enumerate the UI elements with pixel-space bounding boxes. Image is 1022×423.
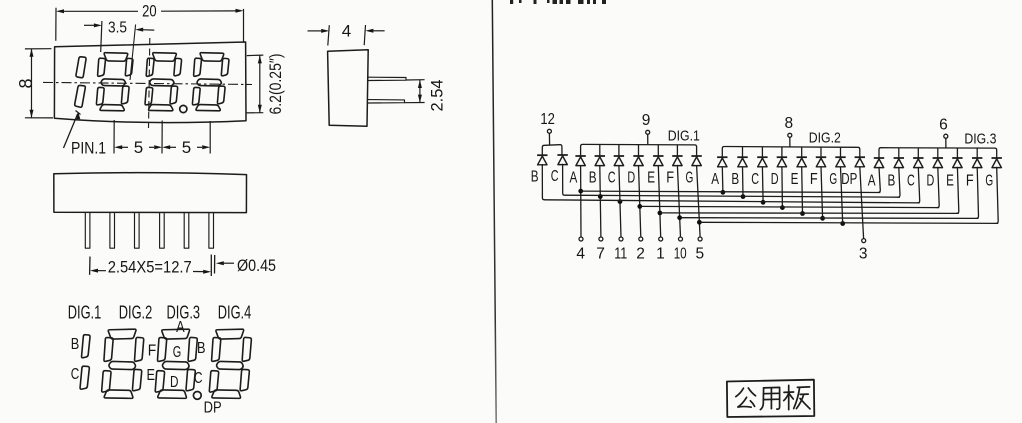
front digit 2 segment E (96, 87, 104, 104)
wire DIG.3 D to bus (937, 167, 939, 207)
svg-text:B: B (531, 168, 539, 185)
dimension 5 extension digit2 (113, 120, 115, 154)
diode DIG.3 segment G (992, 157, 1002, 159)
diode DIG.1 segment A (575, 155, 585, 157)
svg-text:C: C (608, 169, 616, 186)
terminal pin 10 (679, 237, 683, 241)
wire DIG.2 rail to diode G (840, 147, 842, 157)
wire DIG.3 rail to diode B (898, 148, 900, 158)
front digit 2 segment F (98, 58, 106, 76)
diagram digit 4 segment A (216, 329, 244, 339)
pin 6 stub wire (945, 138, 947, 147)
svg-text:1: 1 (656, 245, 665, 262)
front digit 2 segment G (101, 79, 125, 86)
diagram digit 4 segment D (212, 390, 241, 398)
svg-text:B: B (888, 173, 896, 190)
svg-text:7: 7 (596, 245, 605, 262)
dimension 12.7 left extension (89, 257, 91, 275)
bottom view pin 3 (135, 213, 140, 248)
pin 12 terminal (547, 129, 551, 133)
svg-text:6: 6 (939, 116, 948, 133)
stamp box outline (727, 380, 814, 417)
wire DIG.2 rail to diode C (761, 147, 763, 157)
diagram digit 4 segment G (217, 361, 244, 369)
diode DIG.2 segment C (757, 156, 767, 158)
dimension 4 left extension (328, 25, 330, 45)
dimension 4 right extension (364, 25, 365, 45)
pin 9 stub wire (647, 134, 649, 144)
junction DIG.1 D (637, 204, 642, 209)
wire DIG.1 rail to diode B (599, 145, 601, 156)
front digit 3 segment F (146, 58, 154, 76)
svg-text:F: F (666, 169, 674, 186)
wire DIG.3 A to bus (878, 167, 880, 192)
diode DIG.2 segment E (797, 156, 807, 158)
diode DIG.2 segment DP (855, 156, 865, 158)
svg-text:A: A (570, 169, 578, 186)
front digit 3 segment A (153, 53, 177, 62)
front digit 4 segment F (194, 58, 202, 76)
svg-text:3: 3 (859, 246, 868, 263)
svg-text:C: C (751, 171, 759, 188)
diagram digit 4 segment C (240, 369, 249, 390)
diagram digit 3 segment E (155, 371, 164, 392)
front digit 4 segment D (196, 105, 220, 111)
wire DIG.3 C to bus (918, 167, 920, 203)
wire DIG.1 C to terminal (619, 165, 621, 237)
front digit 4 segment C (217, 86, 225, 104)
wire DIG.3 F to bus (976, 167, 978, 218)
junction DIG.2 F (820, 216, 825, 221)
svg-text:F: F (966, 173, 974, 190)
character GONG (736, 388, 744, 396)
wire DIG.1 G to terminal (697, 165, 701, 237)
diode DIG.3 segment C (913, 157, 923, 159)
svg-text:B: B (731, 171, 739, 188)
svg-text:10: 10 (674, 245, 687, 262)
diagram digit 4 segment B (242, 337, 251, 361)
dimension 12.7 line right arrow (193, 271, 204, 273)
junction DIG.1 C (618, 199, 623, 204)
diagram digit 3 segment F (158, 338, 167, 362)
diode DIG.3 segment D (933, 157, 943, 159)
diode DIG.1 segment E (653, 155, 663, 157)
dimension 5 left label (114, 145, 122, 149)
bus C (544, 200, 919, 203)
wire DIG.2 B to bus (742, 167, 745, 197)
diagram digit 3 segment G (163, 361, 190, 369)
terminal pin 2 (639, 237, 643, 241)
svg-text:G: G (829, 171, 837, 188)
bottom view pin 2 (110, 213, 115, 248)
wire DIG.1 rail to diode E (657, 145, 659, 156)
group1 common rail (542, 145, 562, 156)
diagram digit 3 segment D (158, 390, 187, 398)
wire DIG.1 rail to diode F (676, 145, 678, 156)
svg-text:9: 9 (642, 112, 651, 129)
wire DIG.1 A to terminal (580, 165, 582, 237)
side view pin 1 (368, 77, 406, 80)
diode DIG.1 segment F (672, 155, 682, 157)
front digit 1 segment C (75, 85, 86, 107)
front digit 3 segment E (145, 87, 153, 104)
diode DIG.1 segment G (691, 155, 701, 157)
wire DIG.2 G to bus (841, 167, 843, 224)
diode G1-B (537, 154, 547, 156)
wire DIG.2 D to bus (781, 167, 784, 208)
svg-text:8: 8 (784, 115, 793, 132)
svg-text:E: E (946, 173, 954, 190)
diagram digit 3 segment B (188, 337, 197, 361)
bus G (700, 222, 998, 223)
front digit 4 segment E (192, 87, 200, 104)
diode DIG.2 segment D (777, 156, 787, 158)
svg-text:5: 5 (134, 138, 143, 157)
svg-text:B: B (197, 340, 206, 357)
diagram digit 2 segment F (104, 338, 113, 362)
front digit 2 segment B (125, 58, 133, 75)
diode DIG.1 segment C (614, 155, 624, 157)
wire DIG.2 rail to diode F (820, 147, 822, 157)
diagram digit 3 segment A (162, 329, 190, 339)
svg-text:E: E (146, 367, 155, 384)
pin 8 terminal (788, 133, 792, 137)
diode DIG.3 segment F (972, 157, 982, 159)
wire DIG.2 F to bus (821, 167, 823, 219)
svg-text:5: 5 (182, 138, 191, 157)
wire DIG.1 rail to diode C (618, 145, 620, 156)
dimension 3.5 left extension (101, 21, 102, 52)
diagram digit 3 segment C (186, 369, 195, 390)
svg-text:D: D (170, 374, 179, 391)
svg-text:DIG.2: DIG.2 (809, 131, 841, 147)
svg-text:PIN.1: PIN.1 (71, 139, 106, 157)
svg-text:DIG.4: DIG.4 (218, 303, 252, 323)
wire DIG.2 rail to diode B (742, 147, 744, 157)
wire DIG.1 B to terminal (600, 165, 601, 237)
svg-text:DIG.3: DIG.3 (964, 132, 996, 148)
wire G1-C to B bus (563, 164, 565, 195)
character BAN (784, 391, 794, 393)
junction DIG.2 B (741, 194, 746, 199)
svg-text:8: 8 (16, 78, 36, 88)
svg-text:A: A (711, 171, 719, 188)
dimension 12.7 line left arrow (90, 269, 98, 273)
wire DIG.3 G to bus (996, 167, 998, 223)
dimension 3.5 right extension (130, 25, 136, 81)
wire DIG.2 A to bus (721, 167, 724, 193)
diagram digit 4 segment F (212, 338, 221, 362)
svg-text:2.54: 2.54 (428, 80, 446, 112)
diode DIG.3 segment E (952, 157, 962, 159)
bottom view package outline (54, 173, 247, 213)
svg-text:D: D (627, 169, 635, 186)
junction DIG.2 A (721, 190, 726, 195)
digit 3 vertical centerline (149, 38, 150, 128)
junction DIG.1 E (657, 211, 662, 216)
svg-text:C: C (907, 173, 915, 190)
dimension 2.54 line (419, 80, 421, 103)
side view pin 2 (368, 100, 405, 103)
DIG.3 common rail (879, 148, 997, 159)
svg-text:20: 20 (142, 1, 157, 20)
svg-text:2.54X5=12.7: 2.54X5=12.7 (108, 259, 192, 277)
wire DIG.2 C to bus (761, 167, 764, 203)
front decimal point (180, 105, 187, 112)
diagram digit 2 segment A (108, 329, 136, 339)
junction DIG.2 E (800, 211, 805, 216)
svg-text:5: 5 (695, 245, 704, 262)
front digit 4 segment G (197, 79, 221, 86)
junction DIG.2 D (780, 205, 785, 210)
svg-text:C: C (71, 366, 80, 383)
PIN.1 leader (64, 114, 78, 149)
dimension 5 extension digit4 (209, 121, 211, 154)
svg-text:B: B (71, 336, 80, 353)
wire DIG.2 E to bus (801, 167, 804, 214)
wire DIG.3 rail to diode F (976, 148, 978, 158)
diagram decimal point (193, 392, 201, 400)
pin 6 terminal (944, 134, 948, 138)
svg-text:DIG.2: DIG.2 (119, 303, 153, 323)
terminal pin 4 (579, 237, 583, 241)
diode G1-C (557, 154, 567, 156)
svg-text:G: G (686, 169, 694, 186)
front digit 3 segment G (150, 79, 174, 86)
svg-text:DIG.1: DIG.1 (668, 128, 700, 144)
diagram digit 2 segment E (102, 371, 111, 392)
junction DIG.1 F (677, 215, 682, 220)
horizontal centerline (43, 82, 252, 84)
junction DIG.2 G (840, 221, 845, 226)
dimension 6.2 line (259, 55, 261, 112)
wire DIG.1 F to terminal (677, 165, 680, 237)
svg-text:3.5: 3.5 (108, 20, 127, 37)
terminal pin 7 (599, 237, 603, 241)
diagram digit 2 segment G (109, 361, 136, 369)
terminal pin 1 (659, 237, 663, 241)
diode DIG.2 segment A (717, 156, 727, 158)
bus F (681, 217, 979, 220)
pin 9 terminal (646, 130, 650, 134)
svg-text:G: G (985, 173, 993, 190)
terminal pin 5 (698, 237, 702, 241)
svg-text:12: 12 (540, 111, 555, 128)
wire DIG.2 rail to diode E (801, 147, 803, 157)
front digit 3 segment C (170, 86, 178, 104)
svg-text:D: D (771, 171, 779, 188)
front digit 2 segment C (121, 86, 129, 104)
svg-text:DP: DP (204, 399, 222, 416)
front digit 2 segment A (104, 53, 128, 62)
wire DIG.3 rail to diode D (937, 148, 939, 158)
bus A (581, 191, 881, 192)
terminal pin 11 (619, 237, 623, 241)
front digit 3 segment D (149, 105, 173, 111)
dimension 4 line and arrows (308, 30, 323, 32)
dimension 12.7 right extension (210, 255, 212, 277)
front digit 4 segment B (221, 58, 229, 75)
svg-text:Ø0.45: Ø0.45 (237, 256, 276, 275)
svg-text:11: 11 (614, 245, 627, 262)
pin 8 stub wire (789, 137, 791, 146)
svg-text:E: E (791, 171, 799, 188)
dimension 3.5 right arrow (135, 28, 143, 32)
wire DIG.2 DP to pin 3 (860, 167, 864, 239)
dimension diameter 0.45 arrow (216, 261, 224, 265)
junction DIG.1 B (598, 194, 603, 199)
dimension 6.2 extension bottom (246, 112, 263, 114)
diagram digit 4 segment E (209, 371, 218, 392)
bottom view pin 6 (209, 213, 214, 248)
dimension 2.54 extension bottom (405, 102, 425, 104)
front digit 1 segment B (76, 57, 86, 78)
front view package outline (54, 42, 246, 123)
dimension 20 line (64, 10, 138, 12)
svg-text:DP: DP (841, 171, 857, 188)
dimension 3.5 left arrow (84, 24, 95, 26)
diagram digit 2 segment B (135, 337, 144, 361)
bus D (641, 206, 939, 207)
bus B (565, 195, 900, 197)
vertical divider line (0, 0, 1, 1)
dimension 5 right label (162, 145, 170, 149)
side view package outline (328, 50, 369, 126)
DIG.1 common rail (581, 144, 697, 156)
diagram digit 2 segment D (104, 390, 133, 398)
DIG.2 common rail (722, 147, 860, 158)
junction DIG.1 A (578, 189, 583, 194)
svg-text:4: 4 (576, 245, 585, 262)
dimension 8 extension top (25, 48, 52, 50)
wire DIG.3 B to bus (898, 167, 900, 197)
svg-text:G: G (173, 344, 182, 361)
dimension 6.2 extension top (247, 54, 263, 57)
dimension 8 extension bottom (25, 117, 53, 119)
svg-text:A: A (176, 319, 185, 336)
diagram digit 2 segment C (132, 369, 141, 390)
svg-text:DIG.1: DIG.1 (68, 303, 102, 323)
diode DIG.2 segment F (816, 156, 826, 158)
dimension 2.54 extension top (406, 79, 425, 81)
bottom view pin 1 (85, 213, 90, 248)
wire DIG.1 rail to diode D (638, 145, 640, 156)
junction DIG.1 G (697, 220, 702, 225)
wire DIG.3 rail to diode E (956, 148, 958, 158)
svg-text:2: 2 (636, 245, 645, 262)
svg-text:B: B (589, 169, 597, 186)
junction DIG.2 C (761, 200, 766, 205)
diode DIG.1 segment B (595, 155, 605, 157)
diode DIG.2 segment G (835, 156, 845, 158)
wire DIG.1 D to terminal (639, 165, 641, 237)
dimension 5 extension digit3 (161, 121, 163, 154)
wire DIG.1 E to terminal (658, 165, 660, 237)
svg-text:6.2(0.25″): 6.2(0.25″) (267, 54, 285, 115)
diode DIG.1 segment D (633, 155, 643, 157)
diagram digit 1 segment B (82, 335, 90, 358)
cut-off text fragments at top (510, 0, 513, 4)
bottom view pin 5 (184, 213, 189, 248)
svg-text:A: A (868, 173, 876, 190)
dimension 20 extension line right (243, 9, 245, 42)
svg-text:4: 4 (342, 22, 351, 41)
svg-text:F: F (148, 343, 157, 360)
dimension 20 extension line left (55, 8, 57, 41)
diagram digit 1 segment C (80, 366, 89, 389)
diode DIG.2 segment B (737, 156, 747, 158)
wire DIG.3 rail to diode C (917, 148, 919, 158)
wire G1-B to C bus (542, 165, 544, 200)
diode DIG.3 segment B (894, 157, 904, 159)
wire DIG.2 rail to diode D (781, 147, 783, 157)
svg-text:E: E (647, 169, 655, 186)
svg-text:C: C (551, 168, 559, 185)
front digit 3 segment B (174, 58, 182, 75)
svg-text:D: D (927, 173, 935, 190)
terminal pin 3 (862, 239, 866, 243)
pin 12 stub wire (548, 133, 550, 145)
bottom view pin 4 (160, 213, 165, 248)
front digit 2 segment D (100, 105, 124, 111)
diode DIG.3 segment A (874, 157, 884, 159)
wire DIG.3 E to bus (957, 167, 959, 213)
dimension 8 line (31, 49, 33, 118)
svg-text:F: F (810, 171, 818, 188)
svg-text:C: C (194, 370, 203, 387)
front digit 4 segment A (200, 53, 224, 62)
bus E (661, 212, 959, 215)
character YONG (760, 388, 763, 410)
